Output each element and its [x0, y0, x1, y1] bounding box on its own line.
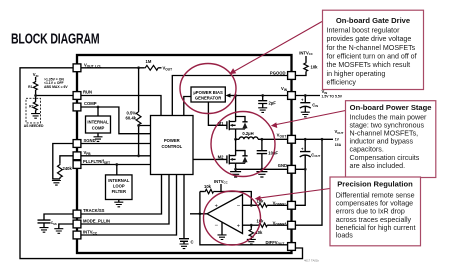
svg-text:inductor and bypass: inductor and bypass [350, 138, 414, 146]
svg-text:1M: 1M [146, 59, 152, 64]
svg-text:ABS MAX = 6V: ABS MAX = 6V [44, 85, 68, 89]
svg-text:−: − [237, 203, 241, 209]
svg-text:1.5V TO 5.5V: 1.5V TO 5.5V [322, 95, 343, 99]
svg-text:CSS: CSS [51, 221, 57, 226]
svg-text:POWER: POWER [164, 138, 180, 143]
svg-text:+: + [301, 98, 304, 103]
svg-text:4617 TA01b: 4617 TA01b [304, 258, 319, 262]
svg-text:N-channel MOSFETs,: N-channel MOSFETs, [350, 130, 419, 138]
svg-text:+: + [237, 223, 240, 229]
svg-text:R1: R1 [28, 85, 32, 89]
svg-text:Internal boost regulator: Internal boost regulator [327, 26, 401, 34]
svg-text:CIN: CIN [312, 102, 318, 108]
svg-text:COMP: COMP [84, 101, 97, 106]
svg-text:µPOWER BIAS: µPOWER BIAS [193, 90, 223, 95]
svg-text:VOUT: VOUT [277, 133, 287, 139]
svg-text:On-board Power Stage: On-board Power Stage [350, 103, 432, 112]
svg-text:240k: 240k [63, 166, 73, 171]
svg-text:GENERATOR: GENERATOR [195, 95, 221, 100]
svg-text:10k: 10k [311, 64, 319, 69]
svg-text:MODE_PLLIN: MODE_PLLIN [83, 218, 110, 223]
svg-text:beneficial for high current: beneficial for high current [336, 224, 416, 232]
svg-text:INTVCC: INTVCC [214, 179, 228, 185]
svg-text:capacitors.: capacitors. [350, 146, 384, 154]
svg-text:INTERNAL: INTERNAL [87, 120, 109, 125]
svg-text:2µF: 2µF [269, 100, 277, 105]
svg-text:Includes the main power: Includes the main power [350, 113, 428, 121]
svg-text:C: C [191, 240, 194, 245]
svg-text:Compensation circuits: Compensation circuits [350, 154, 420, 162]
svg-text:10k: 10k [204, 184, 212, 189]
svg-text:for efficient turn on and off: for efficient turn on and off of [327, 53, 417, 61]
svg-text:compensates for voltage: compensates for voltage [336, 200, 413, 208]
svg-text:M2: M2 [218, 155, 224, 160]
svg-text:−: − [215, 223, 219, 229]
svg-text:SGND: SGND [84, 138, 96, 143]
svg-text:1V: 1V [335, 138, 340, 142]
svg-text:VOSNS−: VOSNS− [273, 201, 287, 207]
svg-text:AS NEEDED: AS NEEDED [24, 124, 44, 128]
svg-text:+: + [215, 204, 218, 210]
svg-text:0.2µH: 0.2µH [242, 131, 253, 136]
svg-text:VOSNS+: VOSNS+ [273, 221, 287, 227]
svg-text:INTERNAL: INTERNAL [108, 178, 130, 183]
svg-text:VOUT: VOUT [163, 66, 173, 72]
svg-text:for the N-channel MOSFETs: for the N-channel MOSFETs [327, 44, 416, 52]
svg-text:VOUT: VOUT [335, 129, 344, 135]
svg-text:On-board Gate Drive: On-board Gate Drive [336, 16, 410, 25]
svg-text:in higher operating: in higher operating [327, 70, 386, 78]
svg-text:COUT: COUT [311, 152, 320, 158]
svg-text:LOOP: LOOP [113, 184, 125, 189]
svg-text:FILTER: FILTER [112, 189, 126, 194]
svg-text:errors due to IxR drop: errors due to IxR drop [336, 208, 405, 216]
svg-text:TRACK/SS: TRACK/SS [83, 208, 105, 213]
svg-text:the MOSFETs which result: the MOSFETs which result [327, 61, 411, 69]
svg-text:R2: R2 [29, 105, 33, 109]
svg-text:VIN: VIN [33, 72, 39, 78]
svg-text:CONTROL: CONTROL [161, 144, 182, 149]
svg-text:COMP: COMP [92, 126, 105, 131]
svg-text:provides gate drive voltage: provides gate drive voltage [327, 35, 412, 43]
svg-text:+: + [301, 147, 304, 152]
svg-text:15A: 15A [335, 143, 342, 147]
svg-text:VOUT_LCL: VOUT_LCL [84, 63, 102, 69]
svg-text:loads: loads [336, 232, 353, 240]
svg-text:INTVCC: INTVCC [299, 50, 313, 56]
svg-text:across traces especially: across traces especially [336, 216, 412, 224]
svg-text:VIN: VIN [281, 86, 288, 92]
svg-text:stage: two synchronous: stage: two synchronous [350, 121, 425, 129]
svg-text:GND: GND [278, 163, 287, 168]
svg-text:Precision Regulation: Precision Regulation [337, 180, 413, 189]
svg-text:Differential remote sense: Differential remote sense [336, 192, 415, 200]
svg-text:60.4k: 60.4k [126, 115, 137, 120]
svg-text:PGOOD: PGOOD [270, 71, 286, 76]
svg-text:efficiency: efficiency [327, 79, 357, 87]
svg-text:are also included.: are also included. [350, 162, 406, 170]
svg-text:RUN: RUN [83, 90, 92, 95]
svg-text:BLOCK DIAGRAM: BLOCK DIAGRAM [11, 30, 100, 47]
